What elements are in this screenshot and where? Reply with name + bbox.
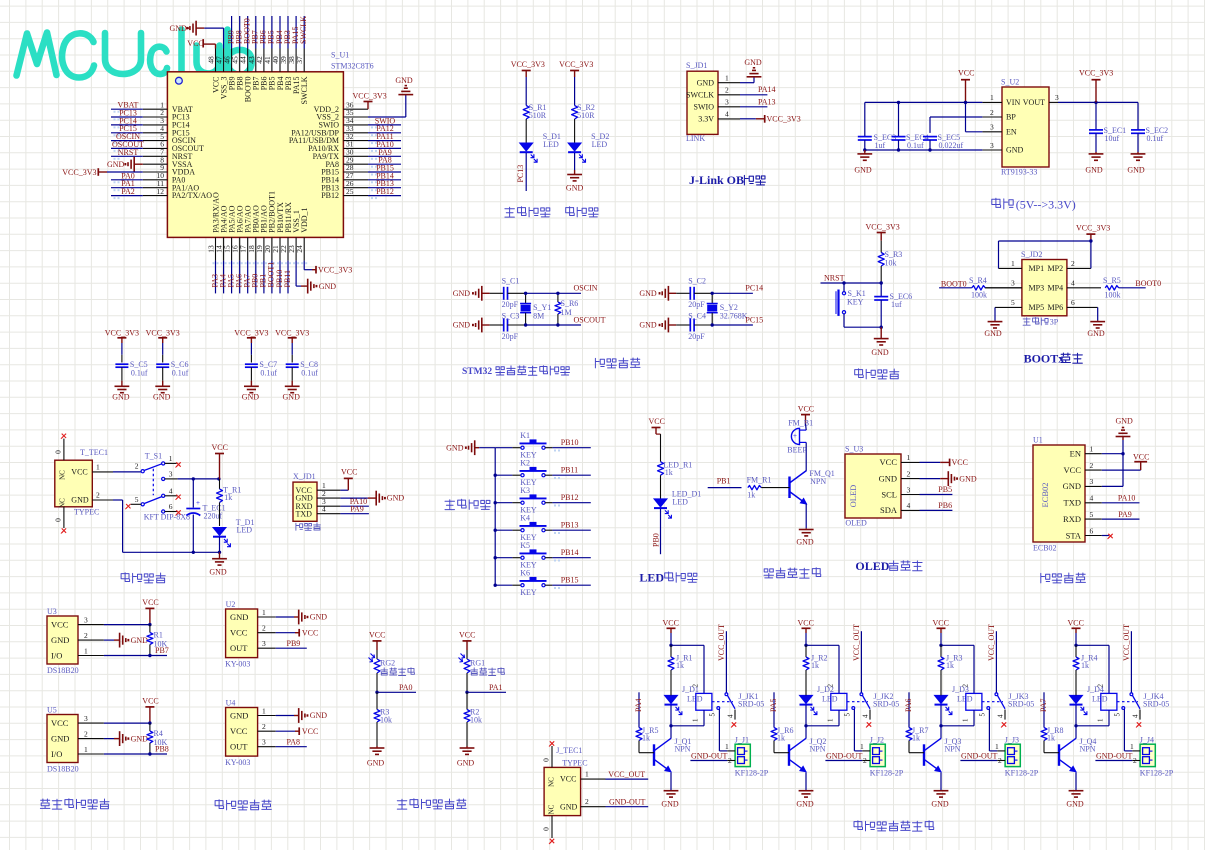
svg-text:2: 2 (1133, 756, 1137, 765)
svg-text:1k: 1k (665, 468, 673, 477)
svg-text:20pF: 20pF (502, 332, 519, 341)
svg-text:2: 2 (998, 756, 1002, 765)
svg-text:TYPEC: TYPEC (74, 508, 99, 517)
svg-text:T_TEC1: T_TEC1 (80, 448, 108, 457)
wire net PB4 (279, 16, 281, 49)
svg-text:GND: GND (1063, 481, 1081, 491)
resistor J_R2 1k (805, 645, 807, 657)
wire led1 (525, 77, 527, 106)
connector S_JD2 jumper body (1022, 260, 1067, 316)
svg-text:SDA: SDA (880, 505, 898, 515)
svg-text:2: 2 (1071, 259, 1075, 268)
title dianyuan 5V-3.3V (992, 198, 1001, 207)
wire net PB6 (263, 16, 265, 49)
wire S_C8 (291, 343, 293, 355)
wire EN GND join (1102, 453, 1123, 455)
push button K1 KEY (495, 447, 512, 449)
wire net PA9 bt (1102, 518, 1140, 520)
wire net VBAT (111, 108, 143, 110)
wire net PB8 (104, 753, 167, 755)
S_JD1 pin 1 GND (718, 82, 740, 84)
svg-text:S_C4: S_C4 (688, 312, 706, 321)
svg-text:1: 1 (995, 742, 999, 751)
U3 pin 1 I/O (78, 655, 104, 657)
S_JD1 pin 4 3.3V (718, 118, 740, 120)
wire net PB13 (545, 529, 552, 531)
svg-text:3: 3 (1011, 279, 1015, 288)
svg-text:SRD-05: SRD-05 (873, 700, 899, 709)
svg-text:MP3: MP3 (1029, 284, 1045, 293)
U1 left pin 3 PC14 (143, 124, 168, 126)
wire net PB14 (368, 179, 401, 181)
U1 top pin 39 PB3 (287, 49, 289, 72)
svg-text:VCC: VCC (1064, 465, 1082, 475)
relay J_JK1 pin4 (734, 710, 736, 720)
svg-text:EN: EN (1006, 127, 1017, 136)
svg-text:KF128-2P: KF128-2P (1005, 769, 1039, 778)
svg-text:PB12: PB12 (376, 187, 394, 196)
S_JD2 pins 3/4 MP3 MP4 (985, 287, 1022, 289)
svg-text:0: 0 (542, 827, 551, 831)
S_U3 pin 2 GND (901, 478, 920, 480)
wire net PB6 (920, 509, 953, 511)
svg-text:LED: LED (822, 695, 838, 704)
svg-text:GND: GND (310, 711, 328, 720)
svg-text:VCC_3V3: VCC_3V3 (234, 328, 268, 337)
svg-text:STM32: STM32 (462, 367, 492, 377)
svg-text:PA5: PA5 (769, 699, 778, 713)
title fuwei circuit (855, 369, 864, 378)
photoresistor RG2 (376, 650, 378, 659)
U1 bottom pin 17 PA7/AO (247, 237, 249, 260)
U1 top pin 44 BOOT0 (247, 49, 249, 72)
U1 bottom pin 13 PA3/RX/AO (215, 237, 217, 260)
ground U3 (104, 639, 114, 641)
svg-text:RG2: RG2 (380, 659, 395, 668)
relay J_JK2 pin4 (869, 710, 871, 720)
U5 pin 1 I/O (78, 753, 104, 755)
U1 bottom pin 22 PB11/RX (287, 237, 289, 260)
svg-text:PB14: PB14 (561, 548, 579, 557)
relay J_JK3 SRD-05 coil (966, 693, 982, 710)
wire net PA7 (1043, 692, 1045, 727)
resistor S_R6 1M (557, 293, 559, 302)
svg-text:GND: GND (639, 289, 657, 298)
svg-text:GND-OUT: GND-OUT (961, 751, 998, 760)
wire net PA10 download (340, 505, 369, 507)
svg-text:VCC: VCC (1068, 619, 1084, 628)
ground oled (920, 478, 941, 480)
svg-text:1: 1 (169, 454, 173, 463)
push button K4 KEY (495, 529, 512, 531)
wire net BOOT0 (247, 16, 249, 49)
svg-text:1: 1 (725, 742, 729, 751)
svg-text:GND: GND (796, 538, 814, 547)
svg-text:0.1uf: 0.1uf (907, 141, 924, 150)
svg-text:GND: GND (984, 329, 1002, 338)
svg-text:1k: 1k (777, 734, 785, 743)
title huoer sensor (215, 800, 224, 809)
svg-text:GND: GND (51, 635, 69, 645)
svg-text:VCC: VCC (663, 619, 679, 628)
ground EC1 (1095, 152, 1097, 154)
svg-text:GND: GND (879, 473, 897, 483)
svg-text:U2: U2 (226, 600, 236, 609)
svg-text:GND-OUT: GND-OUT (609, 797, 646, 806)
svg-text:25: 25 (346, 187, 354, 196)
display S_U3 OLED body (845, 454, 901, 518)
U4 pin 1 GND (258, 715, 276, 717)
svg-text:3.3V: 3.3V (698, 115, 714, 124)
svg-text:1: 1 (96, 462, 100, 471)
svg-text:1: 1 (585, 770, 589, 779)
wire net PA9 download (340, 513, 369, 515)
svg-text:VCC: VCC (880, 457, 898, 467)
U1 top pin 40 PB4 (279, 49, 281, 72)
svg-text:TXD: TXD (1064, 498, 1081, 508)
U1 left pin 7 NRST (143, 155, 168, 157)
svg-text:DS18B20: DS18B20 (47, 765, 79, 774)
svg-text:VCC_OUT: VCC_OUT (717, 624, 726, 661)
U1 pin 6 STA (1085, 535, 1102, 537)
svg-text:GND: GND (387, 494, 405, 503)
T_TEC1 pin 1 VCC (92, 471, 113, 473)
wire net PB1 (263, 261, 265, 294)
svg-text:4: 4 (907, 501, 911, 510)
MCUclub logo (17, 30, 252, 78)
wire net PB11 (287, 261, 289, 294)
T_TEC1 shell pin bottom (63, 507, 65, 528)
U1 left pin 8 VSSA (143, 163, 168, 165)
svg-text:VCC: VCC (560, 775, 576, 784)
svg-text:GND: GND (566, 184, 584, 193)
J_TEC1 shell pin top (551, 746, 553, 767)
U4 pin 2 VCC (258, 730, 276, 732)
svg-text:12: 12 (157, 187, 165, 196)
svg-text:6: 6 (1090, 526, 1094, 535)
X_JD1 pin 3 RXD (317, 505, 340, 507)
resistor J_R5 1k (636, 728, 642, 741)
wire net SWCLK (303, 16, 305, 49)
wire net PA14 (740, 94, 767, 96)
svg-text:SWCLK: SWCLK (299, 16, 308, 44)
svg-text:SWCLK: SWCLK (300, 76, 309, 104)
svg-text:3: 3 (262, 639, 266, 648)
svg-text:1: 1 (907, 453, 911, 462)
svg-text:VCC_3V3: VCC_3V3 (559, 60, 593, 69)
svg-text:0: 0 (54, 518, 63, 522)
S_U2 pin 1 VIN (982, 101, 1002, 103)
svg-text:VCC: VCC (51, 718, 69, 728)
transistor J_Q2 NPN (805, 726, 807, 739)
svg-text:VIN: VIN (1006, 98, 1020, 107)
U5 pin 3 VCC (78, 722, 104, 724)
U1 left pin 6 OSCOUT (143, 147, 168, 149)
U1 right pin 36 VDD_2 (343, 108, 368, 110)
svg-text:KY-003: KY-003 (225, 660, 250, 669)
U1 right pin 27 PB14 (343, 179, 368, 181)
svg-text:4: 4 (1132, 714, 1140, 718)
wire VIN rail (865, 101, 983, 103)
ground VSSA (133, 157, 135, 172)
wire net PC15 (712, 324, 753, 326)
svg-text:K3: K3 (520, 486, 530, 495)
svg-text:LED: LED (957, 695, 973, 704)
ground U2 (276, 616, 294, 618)
svg-text:PB11: PB11 (561, 466, 579, 475)
wire net PA11 (368, 140, 401, 142)
U1 top pin 43 PB7 (255, 49, 257, 72)
svg-text:J_J4: J_J4 (1140, 736, 1154, 745)
svg-text:GND: GND (453, 289, 471, 298)
svg-text:FM_B1: FM_B1 (788, 419, 813, 428)
svg-text:5: 5 (1090, 510, 1094, 519)
U1 right pin 32 PA11/USB/DM (343, 140, 368, 142)
wire net PA4 (638, 692, 640, 727)
wire net PB15 (545, 584, 552, 586)
svg-text:3: 3 (169, 469, 173, 478)
svg-text:T_S1: T_S1 (145, 452, 162, 461)
svg-text:LED: LED (237, 526, 253, 535)
svg-text:PB6: PB6 (938, 501, 952, 510)
wire net PA8 (276, 746, 307, 748)
resistor R4 10K (149, 723, 151, 731)
svg-text:RT9193-33: RT9193-33 (1001, 168, 1037, 177)
U4 pin 3 OUT (258, 746, 276, 748)
title kebiancheng-deng (505, 207, 515, 217)
svg-text:SWIO: SWIO (694, 102, 715, 111)
svg-text:SRD-05: SRD-05 (1143, 700, 1169, 709)
svg-text:GND: GND (153, 393, 171, 402)
terminal J_J4 KF128-2P (1140, 744, 1155, 766)
svg-text:LED: LED (672, 498, 688, 507)
svg-text:K5: K5 (520, 541, 530, 550)
svg-text:37: 37 (295, 56, 304, 64)
title lanya module (1041, 573, 1050, 583)
svg-text:KF128-2P: KF128-2P (1140, 769, 1174, 778)
svg-text:1M: 1M (561, 308, 572, 317)
U2 pin 1 GND (258, 616, 276, 618)
capacitor S_EC1 10uf (1095, 102, 1097, 129)
U1 right pin 35 VSS_2 (343, 116, 368, 118)
svg-text:PB9: PB9 (287, 639, 301, 648)
ground relay1 (670, 773, 672, 791)
S_JD2 pins 1/2 MP1 MP2 (999, 267, 1022, 269)
wire net OSCIN (111, 140, 143, 142)
wire VOUT rail (1058, 101, 1138, 103)
relay J_JK4 pin5 (1122, 707, 1125, 710)
svg-text:NPN: NPN (810, 745, 826, 754)
resistor S_R2 510R (572, 106, 578, 119)
svg-text:1k: 1k (1047, 734, 1055, 743)
wire net PA12 (368, 132, 401, 134)
U1 pin6 STA no connect (1102, 535, 1109, 537)
U1 left pin 12 PA2/TX/AO (143, 195, 168, 197)
wire net GND-OUT (606, 806, 649, 808)
ground relay4 (1075, 773, 1077, 791)
svg-text:4: 4 (169, 486, 173, 495)
relay J_JK2 SRD-05 coil (831, 693, 847, 710)
U3 pin 3 VCC (78, 624, 104, 626)
svg-text:K2: K2 (520, 459, 530, 468)
wire net SWIO (368, 124, 401, 126)
power VCC bluetooth (1102, 469, 1141, 471)
svg-text:2: 2 (827, 684, 835, 688)
svg-text:VCC: VCC (798, 405, 814, 414)
svg-text:VCC: VCC (51, 619, 69, 629)
svg-text:20pF: 20pF (502, 300, 519, 309)
svg-text:PB0: PB0 (652, 533, 661, 547)
LED J_D4 (1070, 695, 1083, 703)
power VCC U4 (276, 730, 295, 732)
ground S_C5 (121, 381, 123, 387)
power VCC U5 (104, 722, 150, 724)
svg-text:KFT DIP-8X8: KFT DIP-8X8 (144, 513, 190, 522)
svg-text:1: 1 (1130, 742, 1134, 751)
svg-text:LED: LED (592, 140, 608, 149)
wire net PA0 (111, 179, 143, 181)
U1 right pin 31 PA10/RX (343, 147, 368, 149)
svg-text:VCC: VCC (933, 619, 949, 628)
wire net PA5 (773, 692, 775, 727)
svg-text:1: 1 (84, 745, 88, 754)
svg-text:1k: 1k (642, 734, 650, 743)
ground U5 (104, 738, 114, 740)
svg-text:MP4: MP4 (1048, 284, 1064, 293)
wire net PA1 (111, 187, 143, 189)
svg-text:3: 3 (262, 738, 266, 747)
svg-text:2: 2 (962, 684, 970, 688)
svg-text:3: 3 (84, 615, 88, 624)
svg-text:VCC_3V3: VCC_3V3 (105, 328, 139, 337)
svg-text:VCC_3V3: VCC_3V3 (62, 168, 96, 177)
svg-text:PA9: PA9 (1118, 510, 1132, 519)
svg-text:GND: GND (457, 759, 475, 768)
wire emitter to gnd (805, 504, 807, 528)
wire bootx loop (999, 240, 1091, 242)
svg-text:BOOTx: BOOTx (1024, 352, 1065, 366)
wire relay2 top (805, 633, 807, 645)
svg-text:PA2/TX/AO: PA2/TX/AO (172, 191, 212, 200)
resistor R1 10K (149, 625, 151, 633)
svg-text:100k: 100k (1105, 291, 1121, 300)
resistor T_R1 1k (219, 479, 221, 489)
sensor U3 DS18B20 body (47, 616, 78, 664)
U1 bottom pin 16 PA6/AO (239, 237, 241, 260)
svg-text:S_R4: S_R4 (969, 276, 987, 285)
relay J_JK1 pin5 (717, 707, 720, 710)
svg-text:VCC: VCC (302, 727, 318, 736)
svg-text:K1: K1 (520, 431, 530, 440)
svg-text:1uf: 1uf (891, 300, 902, 309)
capacitor S_EC2 0.1uf (1137, 102, 1139, 129)
LED S_D1 (520, 143, 533, 151)
X_JD1 pin 2 GND (317, 497, 340, 499)
ground MP5 (994, 307, 996, 320)
wire net PB7 (255, 16, 257, 49)
svg-text:NPN: NPN (810, 477, 826, 486)
svg-text:1k: 1k (912, 734, 920, 743)
svg-text:2: 2 (990, 108, 994, 117)
svg-text:VCC_3V3: VCC_3V3 (318, 266, 352, 275)
ground S_C8 (291, 381, 293, 387)
svg-text:NC: NC (59, 470, 67, 480)
svg-text:U1: U1 (1033, 436, 1043, 445)
svg-text:VCC_3V3: VCC_3V3 (275, 328, 309, 337)
J_J4 pin 1 (1132, 750, 1140, 752)
svg-text:RXD: RXD (1063, 514, 1081, 524)
S_U2 pin 3 VOUT (1049, 101, 1058, 103)
svg-text:2: 2 (725, 86, 729, 95)
svg-text:BOOT0: BOOT0 (941, 279, 967, 288)
wire net PC15 (111, 132, 143, 134)
S_U2 pin 3 GND (982, 149, 1002, 151)
wire net PC14 (712, 292, 753, 294)
svg-text:5: 5 (1114, 713, 1122, 717)
U1 bottom pin 14 PA4/AO (223, 237, 225, 260)
push button K5 KEY (495, 557, 512, 559)
svg-text:3: 3 (907, 485, 911, 494)
svg-text:GND: GND (51, 733, 69, 743)
transistor J_Q4 NPN (1075, 726, 1077, 739)
switch T_S1 pin6 (162, 510, 165, 513)
J_J2 pin 1 (862, 750, 870, 752)
wire net PB10 (279, 261, 281, 294)
title dianyuan circuit (121, 573, 130, 582)
capacitor S_C2 20pF (676, 292, 690, 294)
svg-text:LED: LED (687, 695, 703, 704)
svg-text:VCC: VCC (230, 628, 248, 638)
svg-text:6: 6 (169, 502, 173, 511)
svg-text:1: 1 (692, 718, 700, 722)
J_TEC1 pin 1 VCC (581, 778, 606, 780)
wire led2 (574, 77, 576, 106)
wire net BOOT1 (271, 261, 273, 294)
U2 pin 3 OUT (258, 647, 276, 649)
svg-text:I/O: I/O (51, 749, 62, 759)
svg-text:GND: GND (744, 58, 762, 67)
svg-text:PB5: PB5 (938, 485, 952, 494)
svg-text:VCC_OUT: VCC_OUT (987, 624, 996, 661)
resistor S_R3 10k (880, 241, 882, 253)
U1 top pin 42 PB6 (263, 49, 265, 72)
wire S_C6 (162, 343, 164, 355)
svg-text:S_C3: S_C3 (502, 312, 520, 321)
LED J_D1 (665, 695, 678, 703)
svg-text:2: 2 (84, 729, 88, 738)
J_TEC1 shell pin bottom (551, 816, 553, 838)
wire net NRST (111, 155, 143, 157)
wire S_C7 (250, 343, 252, 355)
power VCC_3V3 J-Link (740, 118, 756, 120)
svg-text:+: + (793, 432, 797, 440)
power VCC U3 (104, 624, 150, 626)
svg-text:PA4: PA4 (634, 699, 643, 713)
svg-text:1: 1 (860, 742, 864, 751)
title guangzhao caiji circuit (397, 799, 407, 809)
resistor R3 10k (376, 692, 378, 709)
svg-text:3: 3 (1055, 93, 1059, 102)
svg-text:+: + (196, 499, 200, 507)
U1 right pin 30 PA9/TX (343, 155, 368, 157)
resistor J_R3 1k (940, 645, 942, 657)
svg-text:EN: EN (1070, 449, 1081, 459)
svg-text:1: 1 (827, 718, 835, 722)
svg-text:1: 1 (1090, 445, 1094, 454)
svg-text:ECB02: ECB02 (1033, 544, 1057, 553)
wire keys bus (479, 447, 495, 449)
LED J_D3 (935, 695, 948, 703)
